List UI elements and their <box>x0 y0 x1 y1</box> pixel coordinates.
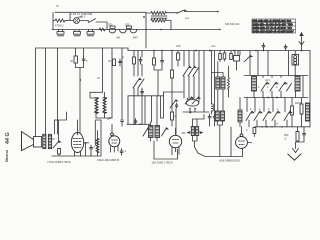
svg-text:10000: 10000 <box>295 101 303 105</box>
HT bus left <box>36 47 129 49</box>
svg-text:Minerva: Minerva <box>5 150 9 162</box>
wire osc net <box>190 51 204 113</box>
switch osc pair <box>185 97 193 104</box>
wire V1 to C7 <box>84 143 89 156</box>
svg-text:Ω: Ω <box>285 136 287 140</box>
aerial jack arrow down <box>299 42 304 46</box>
osc coil end bars <box>95 98 107 113</box>
antenna coil secondary <box>151 19 166 22</box>
resistor R6 <box>171 112 174 120</box>
wire V4 net <box>231 127 252 157</box>
wire to dropper <box>96 22 107 30</box>
switch band row1 c <box>279 82 287 91</box>
choke loop 3 <box>129 30 138 33</box>
wire pad leads <box>210 51 215 127</box>
wire R150 leads <box>177 51 179 67</box>
switch band row1 b <box>270 82 278 91</box>
antenna coil core <box>151 16 167 18</box>
junction dots supply bus <box>145 29 147 31</box>
wire V4 lead diagonal <box>198 148 243 156</box>
wire R5 <box>171 51 173 113</box>
wire supply bus <box>52 29 171 31</box>
coil L2 <box>295 76 300 91</box>
IFT coil left of V3 <box>149 126 154 138</box>
switch HT <box>244 55 252 62</box>
capacitor pad a <box>208 114 211 121</box>
svg-text:44 G: 44 G <box>5 132 11 144</box>
resistor R7 <box>58 149 61 155</box>
switch aerial <box>177 10 186 13</box>
capacitor C10 <box>303 131 306 137</box>
svg-text:CBL6-AB4/1806 B: CBL6-AB4/1806 B <box>97 158 119 162</box>
switch band row2 a <box>246 111 254 120</box>
wire V3 top <box>175 108 177 135</box>
capacitor C7 <box>90 145 93 156</box>
switch mains <box>89 19 96 23</box>
rail left inner <box>45 48 47 134</box>
table text <box>252 19 293 34</box>
capacitor bypass b <box>284 45 287 51</box>
HT bus right <box>128 48 310 51</box>
wire heater drop <box>57 48 59 134</box>
svg-text:42 V: 42 V <box>80 15 86 19</box>
wire R6 down <box>171 120 173 126</box>
wire IF drop <box>111 48 113 118</box>
tube V1 output <box>71 120 83 156</box>
capacitor C4 <box>82 57 85 64</box>
resistor R8 <box>253 128 256 134</box>
capacitor C5 <box>119 59 122 66</box>
wire mid drops <box>95 120 101 156</box>
wire IF grid verticals <box>152 92 164 122</box>
resistor R150 <box>177 53 180 60</box>
resistor R9 <box>291 106 294 115</box>
wire V3 box <box>154 141 178 159</box>
switch band row1 d <box>287 84 292 92</box>
switch band row1 a <box>261 82 269 91</box>
wire coil V3r leads <box>182 115 204 154</box>
svg-text:m: m <box>107 118 109 121</box>
junction node N <box>143 16 145 18</box>
choke loop 1 <box>108 30 117 33</box>
svg-text:500: 500 <box>284 133 289 137</box>
svg-text:BAT: BAT <box>133 36 138 40</box>
svg-text:42 C: 42 C <box>265 78 271 82</box>
AVC rail right <box>255 126 310 128</box>
wire band mid rail <box>244 97 308 99</box>
switch band row2 c <box>263 111 271 120</box>
resistor bus small c <box>230 54 233 60</box>
wire R10 <box>301 98 303 127</box>
osc padder loop <box>186 100 199 107</box>
wire left mid <box>55 112 67 120</box>
svg-text:a-d: a-d <box>185 16 189 20</box>
wire drop grid <box>76 48 84 57</box>
switch bandset arrows <box>133 78 141 88</box>
stray mark <box>56 5 59 8</box>
wire aerial feed <box>186 11 217 13</box>
resistor R11 <box>296 132 299 142</box>
capacitor AVC <box>134 119 137 125</box>
wire earth feed <box>171 29 219 31</box>
wire R4 leads <box>154 51 162 96</box>
resistor R3 <box>113 59 116 66</box>
IF transformer T2 winding R <box>221 111 225 121</box>
wire top box top rail <box>55 11 146 13</box>
capacitor block left <box>133 57 136 64</box>
switch labels right block <box>250 86 279 111</box>
wire small resistor leads <box>220 51 231 62</box>
osc coil winding B <box>103 98 106 113</box>
wire coil RF leads <box>294 51 296 76</box>
Minerva rotated label <box>5 132 11 162</box>
resistor R5 <box>171 70 174 78</box>
svg-text:AM: AM <box>116 36 120 40</box>
trimmer box 1 <box>110 26 115 28</box>
svg-text:NM 290 4AF: NM 290 4AF <box>225 22 240 26</box>
svg-text:240·15·220·6·3·05: 240·15·220·6·3·05 <box>252 29 285 33</box>
osc trimmer loop <box>187 98 189 100</box>
wire band drops <box>254 76 296 98</box>
svg-text:m: m <box>276 123 278 126</box>
wire IFT leads <box>151 122 158 141</box>
grid coil V2 <box>96 139 99 153</box>
wire bottom left <box>52 154 101 156</box>
coil L1 <box>252 76 257 91</box>
osc small coil <box>212 104 214 111</box>
contact V3 right b <box>200 131 204 134</box>
capacitor IF drop2 <box>121 120 124 124</box>
svg-text:250: 250 <box>108 23 113 27</box>
aerial jack arrow up <box>301 37 303 51</box>
wire dropper to HT bus <box>145 13 147 48</box>
coil right of V3 upper <box>191 127 194 136</box>
tube V4 <box>236 134 248 149</box>
electrolytic C1 <box>57 30 64 36</box>
coil osc right <box>306 103 310 121</box>
wire osc coil leads <box>96 112 112 118</box>
labels small texts <box>52 12 302 153</box>
wire speaker leads <box>36 120 59 141</box>
capacitor C8 <box>120 149 123 156</box>
wire right block frame <box>240 51 310 127</box>
capacitor block left b <box>139 57 142 64</box>
wire V2 pins <box>111 124 119 152</box>
resistor R mains dropper <box>53 19 67 22</box>
wire T2 bottom join <box>217 121 222 157</box>
switch band row2 b <box>254 111 262 120</box>
rail left outer <box>35 48 37 137</box>
switch tone <box>53 141 61 148</box>
switch grid V3 <box>170 100 177 108</box>
IF transformer T1 winding R <box>221 77 225 89</box>
electrolytic C3 <box>87 30 94 36</box>
wire row2 drops <box>247 98 292 127</box>
capacitor pad b <box>213 114 216 121</box>
wire V2 coil leads <box>97 131 99 157</box>
capacitor bypass a <box>262 43 265 51</box>
wire V3 pins <box>172 128 179 155</box>
resistor R4 <box>153 58 156 65</box>
wire osc small coil leads <box>211 95 213 114</box>
tube V2 <box>109 133 120 147</box>
antenna coil primary <box>151 12 166 15</box>
svg-text:C: C <box>276 86 278 89</box>
output transformer winding 2 <box>48 134 51 148</box>
IF transformer T1 extra winding <box>228 78 230 90</box>
tube V3 <box>169 135 181 147</box>
electrolytic C9 <box>234 51 240 71</box>
wire mid horizontal 2 <box>164 91 184 93</box>
lamp dial <box>74 18 80 24</box>
trimmer box 2 <box>127 26 132 28</box>
wire mid verticals <box>128 96 145 124</box>
osc coil winding A <box>95 98 98 113</box>
resistor bus small b <box>223 53 226 59</box>
resistor R10 <box>300 104 303 114</box>
wire osc bottom rail <box>183 111 209 113</box>
wire IF drop2 <box>121 48 123 126</box>
wire T1 area <box>212 62 229 112</box>
wire mid horizontal <box>128 95 164 97</box>
wavetrap small coil <box>99 28 105 31</box>
svg-text:220V: 220V <box>287 29 294 33</box>
IF transformer T1 winding L <box>216 77 220 89</box>
wire coil secondary lead <box>167 21 171 30</box>
output transformer winding 1 <box>43 134 46 148</box>
coil RF right top <box>292 55 299 66</box>
voltage table <box>252 19 296 33</box>
switch IFT right <box>162 128 168 136</box>
wire band verticals <box>134 51 142 125</box>
switch band row2 d <box>272 111 280 120</box>
capacitor Cg <box>141 89 144 95</box>
wire lamp branch <box>69 12 71 20</box>
wire R8 <box>254 127 256 137</box>
AVC rail <box>127 123 150 125</box>
wire corner <box>90 48 105 98</box>
coil L3 <box>238 110 242 122</box>
wire osc verticals <box>184 51 194 99</box>
switch band row2 e <box>284 111 292 120</box>
svg-text:+Cu: +Cu <box>211 44 216 48</box>
loudspeaker <box>22 132 42 151</box>
capacitor grid V3 <box>175 103 178 108</box>
electrolytic C2 <box>74 30 81 36</box>
wire band rail upper <box>244 75 308 77</box>
coil right of V3 lower <box>196 127 199 136</box>
IF transformer T2 winding L <box>215 111 219 121</box>
wire top box left side <box>52 13 54 30</box>
junction dots HT <box>153 50 155 52</box>
svg-text:4700 Ω: 4700 Ω <box>55 24 63 28</box>
svg-text:Y70Ω 2KB4/1706 B: Y70Ω 2KB4/1706 B <box>47 160 71 164</box>
wire coil primary leads <box>146 12 176 14</box>
chassis arrow <box>296 127 305 149</box>
svg-text:AQ8 1RB8/C8C8: AQ8 1RB8/C8C8 <box>219 158 240 162</box>
wire L3 <box>239 98 241 127</box>
svg-text:250: 250 <box>125 23 130 27</box>
wire trimmer leads <box>211 51 213 96</box>
svg-text:18A 2K80 1780 B: 18A 2K80 1780 B <box>152 160 173 164</box>
switch IFT left <box>143 128 149 136</box>
resistor bus small a <box>219 54 222 60</box>
switch osc arrows <box>183 66 191 76</box>
choke loop 2 <box>119 30 128 33</box>
svg-text:150: 150 <box>176 44 181 48</box>
capacitor C6 <box>161 57 164 65</box>
contact V3 right a <box>187 131 191 134</box>
resistor R2 <box>74 56 78 63</box>
wire cluster join <box>76 63 84 133</box>
wire lamp leads <box>66 20 88 22</box>
